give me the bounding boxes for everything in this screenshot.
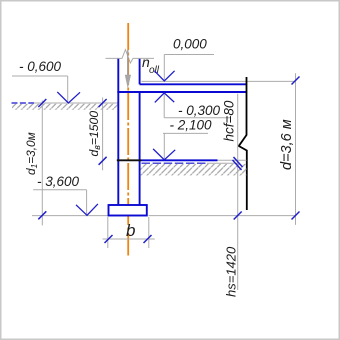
ground line left (grey) <box>33 102 118 104</box>
column right edge <box>139 59 141 85</box>
basement hatch <box>141 164 247 176</box>
column break line (grey zigzag) <box>106 50 155 63</box>
dv tick top <box>99 99 107 107</box>
svg-text:hcf=80: hcf=80 <box>222 100 237 141</box>
column right edge below slab <box>139 92 141 205</box>
load arrow head (grey) <box>125 75 131 89</box>
level mark -0,300 <box>155 93 230 118</box>
svg-text:hs=1420: hs=1420 <box>224 246 239 297</box>
dimension dv: line <box>102 97 104 170</box>
svg-text:- 0,600: - 0,600 <box>19 59 62 74</box>
dimension d right: line <box>295 73 297 225</box>
svg-text:- 3,600: - 3,600 <box>37 174 80 189</box>
footing <box>109 205 147 216</box>
slab top line <box>140 83 247 85</box>
d tick top <box>292 77 300 85</box>
hs tick bottom <box>234 212 242 220</box>
orange centerline axis <box>127 23 129 256</box>
level mark -3,600 <box>33 174 98 215</box>
dimension hs/hcf common line <box>237 94 239 290</box>
svg-text:b: b <box>126 221 135 240</box>
underfloor dashed blue line <box>142 162 208 164</box>
load arrow shaft (grey) <box>127 50 129 75</box>
hs double tick top <box>234 157 243 167</box>
column left edge <box>117 59 119 205</box>
slab bottom line <box>117 91 246 93</box>
footing bottom extension left (grey) <box>32 215 108 217</box>
wall line right (black with break) <box>239 77 247 210</box>
ground line left dashed blue end <box>12 102 35 104</box>
b tick left <box>105 235 113 243</box>
ground hatch left <box>12 104 117 110</box>
underfloor grey continuation <box>207 162 238 164</box>
d tick bottom <box>292 212 300 220</box>
dimension b: extension lines <box>107 217 109 248</box>
level mark -0,600 <box>12 59 80 103</box>
d1 tick top <box>38 99 46 107</box>
b dimension line <box>103 238 155 240</box>
basement floor black segment across column <box>117 159 142 161</box>
b tick right <box>144 235 152 243</box>
footing bottom extension right (grey) <box>149 215 296 217</box>
basement floor grey continuation <box>218 159 247 161</box>
svg-text:d1=3,0м: d1=3,0м <box>24 132 39 175</box>
basement floor blue line <box>142 159 218 161</box>
0,000 level line (grey) <box>142 80 296 82</box>
svg-text:0,000: 0,000 <box>173 37 207 52</box>
d1 tick bottom <box>38 211 46 219</box>
dimension d1: line <box>41 101 43 226</box>
dv tick bottom <box>99 157 107 165</box>
level mark -2,100 <box>153 118 212 160</box>
level mark 0,000 <box>154 37 214 82</box>
svg-text:- 0,300: - 0,300 <box>178 103 221 118</box>
svg-text:- 2,100: - 2,100 <box>170 118 213 133</box>
svg-text:d=3,6 м: d=3,6 м <box>279 119 295 170</box>
